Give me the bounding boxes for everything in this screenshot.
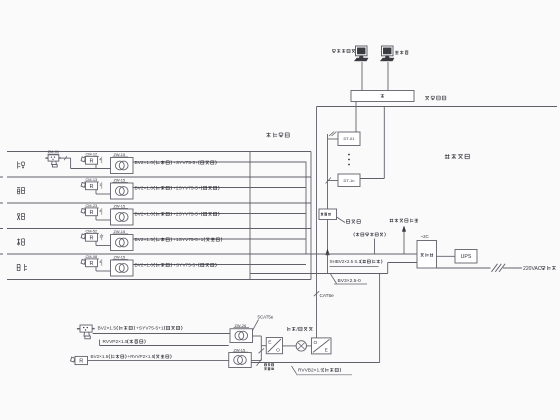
wire server to switch (361, 62, 363, 91)
computer icon U10 management server (354, 46, 368, 61)
svg-text:R: R (89, 184, 93, 190)
svg-text:R: R (89, 158, 93, 164)
computer icon U11 workstation (380, 46, 394, 61)
svg-text:O: O (276, 347, 280, 353)
tick on long bottom wire (257, 359, 262, 366)
svg-text:+SYV75-5+: +SYV75-5+ (173, 263, 198, 269)
svg-text:1: 1 (99, 183, 101, 187)
svg-text:DT-01: DT-01 (344, 136, 356, 141)
leader bottom RVVB label (292, 366, 297, 374)
row 1 sensor wire (61, 157, 71, 159)
svg-text:O: O (314, 340, 318, 346)
svg-text:R: R (89, 235, 93, 241)
svg-text:ZW-15: ZW-15 (234, 347, 246, 352)
row 4 floor label (17, 238, 24, 245)
leader to label video line (337, 217, 346, 223)
wire workstation to switch (387, 62, 389, 91)
label factory provided cable (354, 232, 386, 236)
svg-text:+SYV75-5+1: +SYV75-5+1 (136, 326, 164, 332)
stub rail to DT-01 (328, 138, 339, 140)
dots between DT boxes (348, 154, 350, 156)
svg-text:BV2×1.0: BV2×1.0 (135, 186, 154, 192)
svg-text:4: 4 (99, 158, 101, 162)
connector circle (283, 345, 297, 347)
relay R box row 1 (86, 156, 98, 164)
up arrow on rail (326, 249, 330, 255)
UPS box (455, 250, 477, 264)
relay R box row 3 (86, 208, 98, 216)
svg-text:ZW-15: ZW-15 (114, 229, 126, 234)
sensor/camera icon row 1 (48, 155, 59, 161)
bus line comm (317, 106, 558, 108)
svg-text:BV2×1.5: BV2×1.5 (98, 326, 117, 332)
transformer box ZW-26 (230, 329, 253, 343)
box DT-01 (338, 132, 360, 146)
row 2 low link wire (96, 193, 111, 195)
svg-text:ZW-15: ZW-15 (114, 178, 126, 183)
leader 5CAT5e (253, 320, 259, 331)
svg-text:17: 17 (99, 235, 103, 239)
small box media converter (319, 209, 337, 220)
leader to BV label (331, 274, 337, 284)
row 1 R stub down (95, 164, 97, 168)
svg-text:RVVP2×1.5: RVVP2×1.5 (103, 339, 128, 345)
relay R box row 2 (86, 182, 98, 190)
table divider column (249, 152, 251, 280)
svg-text:BV2×1.0: BV2×1.0 (135, 212, 154, 218)
transformer box row 2 (111, 183, 134, 199)
tick on DT-01 stub (329, 132, 334, 137)
row 4 R stub down (95, 241, 97, 245)
svg-text:R: R (89, 261, 93, 267)
long bottom wire to riser (251, 362, 379, 364)
down leg to camera chain (379, 274, 381, 363)
svg-text:BV2×1.0: BV2×1.0 (135, 160, 154, 166)
table right border (310, 152, 312, 280)
tick on vertical link (259, 348, 265, 353)
bottom camera wire 1 (95, 328, 98, 330)
svg-text:4: 4 (99, 209, 101, 213)
wire B from camera chain to distribution box (250, 273, 388, 275)
220V AC mains wire with break slashes (437, 267, 491, 269)
transformer box row 1 (111, 158, 134, 174)
switch box U12 (351, 91, 414, 102)
row 1 floor label (18, 161, 25, 168)
floor riser table horizontal borders (7, 151, 311, 153)
row 5 floor label (17, 264, 27, 271)
camera icon bottom (80, 325, 92, 332)
svg-text:BV3×2.5-0: BV3×2.5-0 (338, 278, 362, 284)
wire to UPS (437, 255, 456, 257)
distribution box -2C (417, 241, 437, 269)
wire switch to DT-01 crossing bus (355, 102, 357, 133)
CAT5e rail from bus to O/E box (316, 107, 318, 338)
row 5 R stub down (95, 267, 97, 271)
transformer box row 4 (111, 235, 134, 251)
tick on sensor wire (64, 156, 67, 160)
stub rail to DT-n (328, 180, 339, 182)
svg-text:R: R (89, 210, 93, 216)
link wires between ZW boxes and E/O (253, 335, 262, 337)
label above table (266, 133, 289, 138)
tiny text under E/O line2 (264, 368, 273, 371)
tiny text under E/O line1 (264, 364, 273, 367)
collector vertical joining row wires (305, 162, 307, 255)
row 2 R stub down (95, 190, 97, 194)
row 3 floor label (17, 213, 24, 220)
svg-text:XHBV2×2.5 S.1: XHBV2×2.5 S.1 (330, 259, 362, 264)
svg-text:+RVVP2×1.5: +RVVP2×1.5 (128, 354, 155, 359)
svg-text:~2C: ~2C (421, 234, 429, 239)
svg-text:ZW-26: ZW-26 (235, 323, 247, 328)
svg-text:E: E (268, 340, 271, 346)
svg-text:DT-1n: DT-1n (344, 178, 355, 183)
svg-text:UPS: UPS (461, 254, 472, 260)
svg-text:4: 4 (99, 260, 101, 264)
tick on CAT5e rail (314, 291, 319, 296)
row 2 wire to collector (133, 187, 306, 189)
row 4 wire to collector (133, 238, 306, 240)
svg-text:BV2×1.5: BV2×1.5 (91, 354, 109, 359)
label comm bus (425, 96, 445, 100)
relay R box bottom (75, 356, 88, 364)
row 3 R stub down (95, 216, 97, 220)
svg-text:220VAC: 220VAC (523, 266, 542, 272)
bottom camera wire 2 (99, 340, 101, 346)
transformer box row 5 (111, 260, 134, 276)
row 1 wire to collector (133, 161, 306, 163)
svg-text:+SYV75-5+: +SYV75-5+ (173, 160, 198, 166)
leader to wire A (374, 239, 376, 255)
bottom R wire (88, 360, 229, 362)
svg-text:ZW-15: ZW-15 (114, 152, 126, 157)
row 5 low link wire (96, 270, 111, 272)
wire bus down to DT-n (383, 107, 385, 179)
row 3 wire to collector (133, 213, 306, 215)
box DT-n (338, 174, 360, 187)
label inside switch (381, 94, 385, 98)
relay R box row 4 (86, 233, 98, 241)
wire into DT-n right (360, 178, 384, 180)
label power splitter (287, 327, 295, 331)
label workstation (395, 51, 408, 55)
label management server (332, 49, 355, 53)
svg-text:ZW-15: ZW-15 (114, 255, 126, 260)
svg-text:5CAT5e: 5CAT5e (258, 315, 274, 320)
tick on DT-n stub (326, 178, 332, 184)
scan bleed marks (0, 176, 3, 178)
row 1 low link wire (71, 168, 111, 170)
E/O converter box (266, 338, 282, 354)
annotation arrow to monitoring equipment (403, 228, 405, 255)
svg-text:ZM-01: ZM-01 (48, 149, 59, 154)
label video line (346, 220, 360, 224)
left rail of DT column (327, 134, 329, 274)
underline fire power label (330, 266, 379, 268)
row 5 wire to collector (133, 264, 306, 266)
svg-text:+2SYV75-5+: +2SYV75-5+ (173, 212, 201, 218)
svg-text:ZW-15: ZW-15 (114, 204, 126, 209)
svg-text:RVVB2×1.5: RVVB2×1.5 (298, 368, 323, 374)
row 4 low link wire (96, 245, 111, 247)
transformer box ZW-15 bottom (229, 353, 252, 368)
svg-text:E: E (325, 348, 328, 354)
transformer box row 3 (111, 209, 134, 225)
wire A to distribution box (311, 253, 417, 255)
relay R box row 5 (86, 259, 98, 267)
svg-text:+1SYV75-5+1: +1SYV75-5+1 (173, 237, 203, 243)
row 2 floor label (17, 187, 24, 194)
svg-text:BV2×1.0: BV2×1.0 (135, 263, 154, 269)
row 3 low link wire (96, 219, 111, 221)
svg-text:BV2×1.5: BV2×1.5 (135, 237, 154, 243)
svg-text:/: / (296, 327, 298, 333)
O/E converter box (312, 338, 332, 354)
row 1 sensor wire drop (70, 158, 72, 168)
label monitoring center (445, 154, 469, 159)
svg-text:CAT5e: CAT5e (320, 293, 335, 298)
svg-text:+2SYV75-5+: +2SYV75-5+ (173, 186, 201, 192)
svg-text:R: R (79, 359, 83, 365)
label monitoring center equipment (390, 219, 418, 223)
